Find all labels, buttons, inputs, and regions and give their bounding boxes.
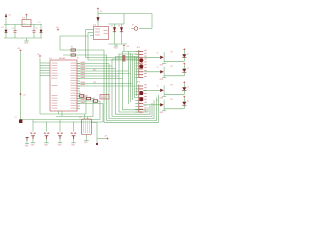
svg-text:GND: GND [25, 145, 29, 147]
svg-text:+5V: +5V [23, 95, 27, 97]
svg-text:R2: R2 [77, 57, 79, 59]
svg-text:R9: R9 [171, 84, 173, 86]
svg-text:C7: C7 [15, 117, 17, 119]
svg-text:T5: T5 [111, 25, 113, 27]
svg-text:X1: X1 [9, 15, 11, 17]
svg-text:T1: T1 [157, 100, 159, 102]
svg-text:GND: GND [84, 142, 88, 144]
svg-text:R9: R9 [171, 99, 173, 101]
svg-text:T1: T1 [157, 67, 159, 69]
svg-text:T6: T6 [118, 25, 120, 27]
svg-text:+5V: +5V [56, 27, 60, 29]
svg-text:L1: L1 [187, 101, 189, 103]
svg-text:JP1: JP1 [137, 47, 141, 49]
svg-text:R1: R1 [71, 47, 73, 49]
svg-text:L1: L1 [187, 54, 189, 56]
svg-text:GND: GND [31, 144, 35, 146]
svg-text:GND: GND [44, 144, 48, 146]
svg-text:K1: K1 [132, 25, 134, 27]
svg-text:R9: R9 [171, 66, 173, 68]
svg-text:7805: 7805 [23, 23, 27, 25]
svg-text:GND: GND [160, 65, 164, 67]
svg-text:Q1: Q1 [79, 117, 81, 119]
svg-text:R3: R3 [79, 93, 81, 95]
svg-text:GND: GND [160, 98, 164, 100]
svg-text:+5V: +5V [126, 46, 130, 48]
svg-text:JP2: JP2 [137, 82, 141, 84]
svg-text:GND: GND [71, 144, 75, 146]
svg-text:T1: T1 [157, 53, 159, 55]
svg-text:C1: C1 [12, 28, 14, 30]
svg-text:IC2: IC2 [93, 25, 97, 27]
svg-text:R3: R3 [93, 98, 95, 100]
svg-text:GND: GND [58, 144, 62, 146]
svg-text:R3: R3 [86, 95, 88, 97]
svg-text:R9: R9 [171, 51, 173, 53]
svg-text:GND: GND [24, 42, 29, 44]
svg-text:GND: GND [160, 79, 164, 81]
svg-text:T1: T1 [157, 86, 159, 88]
svg-text:IC1: IC1 [49, 58, 53, 60]
svg-text:GND: GND [160, 112, 164, 114]
svg-text:D2: D2 [100, 11, 102, 13]
svg-text:L1: L1 [187, 68, 189, 70]
svg-text:L1: L1 [39, 22, 41, 24]
svg-text:GND: GND [114, 47, 119, 49]
svg-text:C2: C2 [35, 28, 37, 30]
svg-text:SCK: SCK [93, 82, 96, 84]
svg-text:D1: D1 [2, 27, 4, 29]
svg-text:IC3: IC3 [22, 17, 26, 19]
svg-text:L1: L1 [187, 87, 189, 89]
svg-text:+5V: +5V [104, 136, 108, 138]
svg-text:MEGA8: MEGA8 [59, 57, 65, 60]
